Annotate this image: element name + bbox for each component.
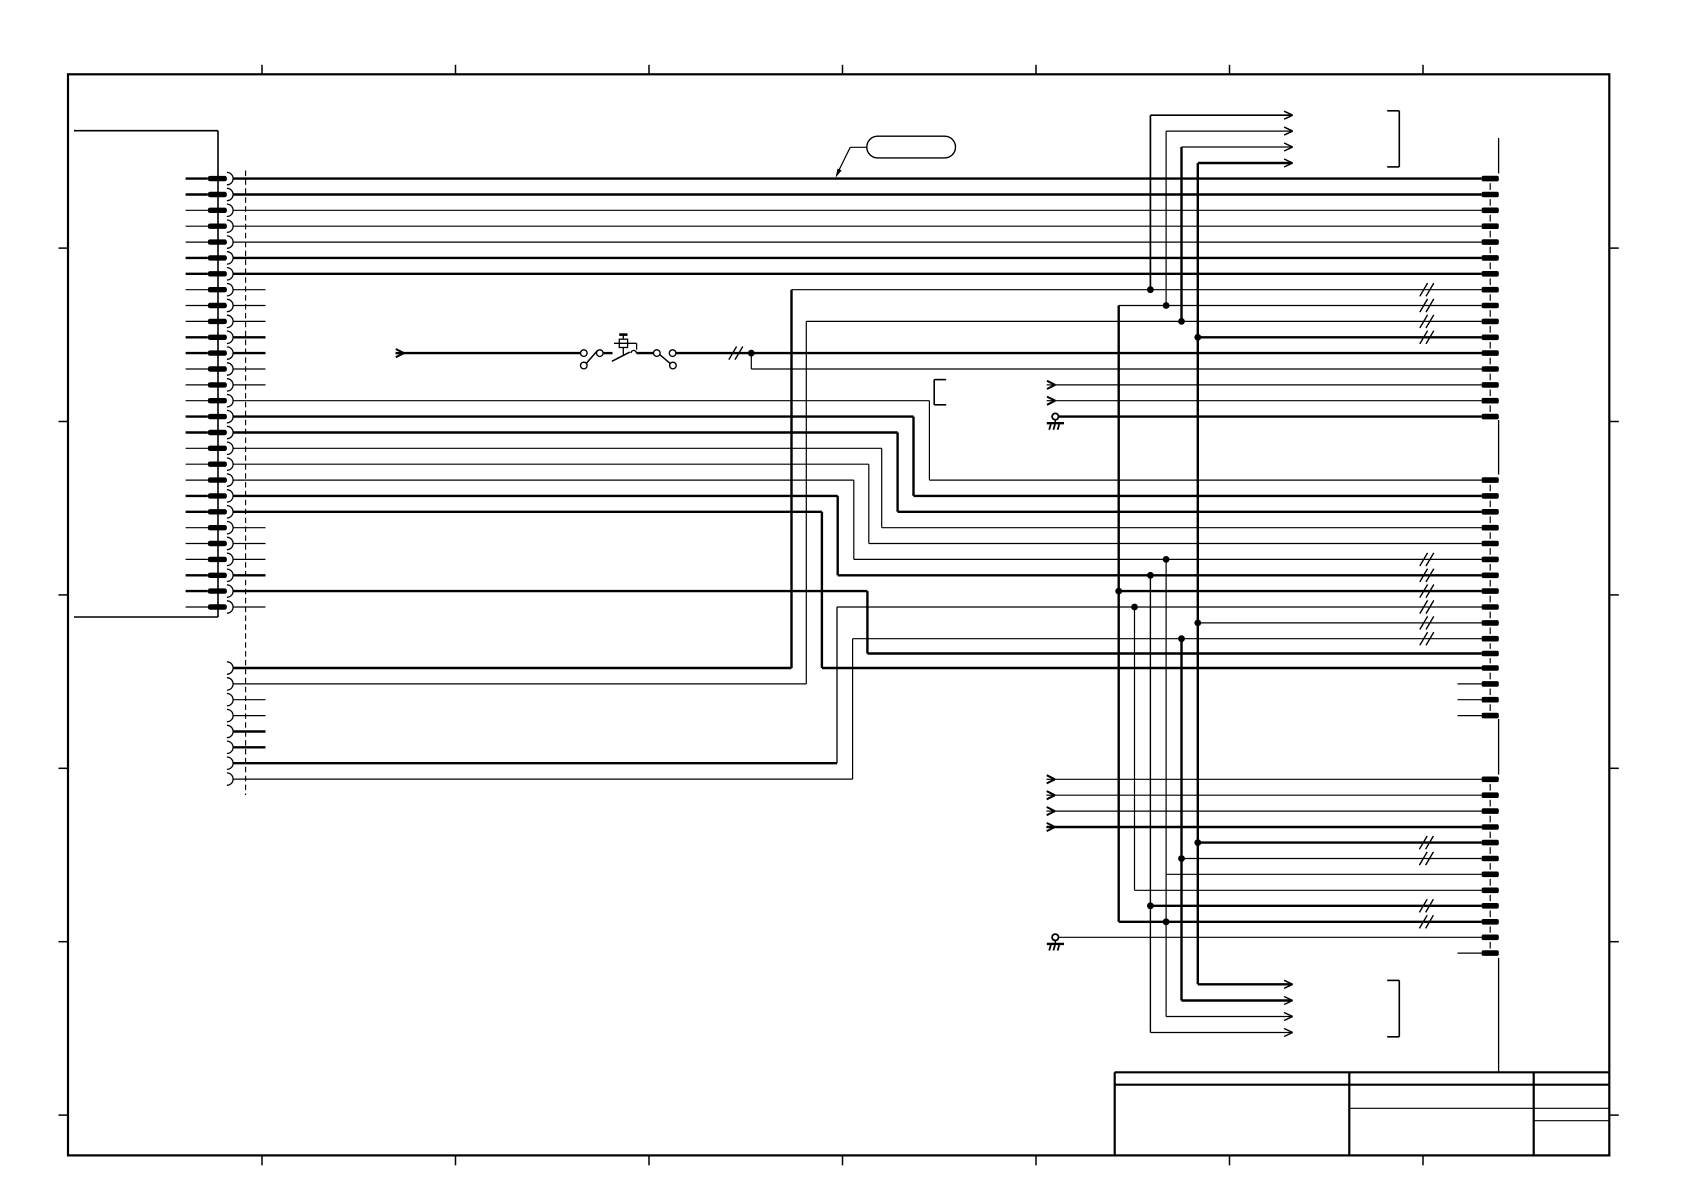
incoming signal arrow g1 xyxy=(1046,791,1055,799)
junction row8/V1166 xyxy=(1163,302,1170,309)
connector J2 pins 1-8 (contacts) xyxy=(227,662,233,786)
wire vertical V791 xyxy=(790,290,792,668)
bus vertical V1150 upper xyxy=(1149,115,1151,290)
wire row20 east xyxy=(914,495,1482,497)
wire row19 east (from row14 jog) xyxy=(929,479,1481,481)
wire J1 pin22 row21 xyxy=(233,511,822,513)
stub wire J1 pin13 xyxy=(233,368,265,370)
outgoing arrow bottom 4 xyxy=(1150,1032,1291,1034)
stub wire J1 pin28 xyxy=(233,606,265,608)
outgoing arrow bottom 3 xyxy=(1166,1016,1291,1018)
wire row6 xyxy=(233,273,1482,275)
wire g0 east xyxy=(1055,778,1482,780)
wire g9 east xyxy=(1119,921,1482,923)
wire row7 east xyxy=(792,289,1482,291)
wire g6 east xyxy=(1166,873,1482,875)
wire row11 east xyxy=(676,352,1482,354)
outgoing arrow top 4 xyxy=(1198,162,1291,164)
wire g1 east xyxy=(1055,794,1482,796)
slash mark row24 xyxy=(1420,553,1434,566)
connector P3 centerline dashes xyxy=(1489,183,1491,948)
junction g4/V1198 xyxy=(1194,839,1201,846)
connector P3 contact blobs xyxy=(1482,176,1499,956)
bus vertical V1181 upper xyxy=(1180,147,1182,321)
wire J1 pin21 row20 xyxy=(233,495,838,497)
incoming signal arrow g0 xyxy=(1046,775,1055,783)
bus vertical V1198 xyxy=(1197,163,1199,984)
switch S1 blade hinge hump xyxy=(631,350,636,353)
outgoing arrow bottom 1 xyxy=(1198,983,1291,985)
wire vertical V852 xyxy=(852,639,854,779)
junction g9/V1166 xyxy=(1163,918,1170,925)
wire row9 east xyxy=(806,320,1481,322)
incoming signal arrow row13 xyxy=(1047,381,1056,389)
wire vertical V806 xyxy=(805,321,807,684)
stub wire J1 pin12 xyxy=(233,352,265,354)
stub wire right row34 xyxy=(1458,715,1482,717)
wire branch row11 to row12 xyxy=(750,353,752,369)
junction row24/V1166 xyxy=(1163,556,1170,563)
wire row22 east xyxy=(882,527,1482,529)
wire row25 east xyxy=(838,574,1482,576)
wire g4 east xyxy=(1198,841,1482,843)
stub wire J2 pin4 xyxy=(233,715,265,717)
wire J1 pin19 row18 xyxy=(233,463,869,465)
stub wire J1 pin8 xyxy=(233,289,265,291)
group bracket bottom right xyxy=(1387,980,1399,1036)
wire J1 pin16 row15 xyxy=(233,415,913,417)
junction row10/V1198 xyxy=(1194,334,1201,341)
slash mark row29 xyxy=(1420,632,1434,645)
stub wire right row32 xyxy=(1458,683,1482,685)
outgoing arrow bottom 2 xyxy=(1182,999,1292,1001)
incoming signal arrow g2 xyxy=(1046,807,1055,815)
wire J2 pin2 row32 west xyxy=(233,683,806,685)
junction row27/V1134 xyxy=(1131,604,1138,611)
wire J1 pin20 row19 xyxy=(233,479,854,481)
wire row12 east xyxy=(751,368,1481,370)
terminal circle g10 xyxy=(1052,934,1058,940)
junction row9/V1181 xyxy=(1178,318,1185,325)
wire row23 east xyxy=(869,543,1482,545)
wire vertical x929 (row14 to row19) xyxy=(928,401,930,480)
incoming signal arrow row11 xyxy=(396,349,405,357)
wire row0 (J1-1 to P3) xyxy=(233,177,1482,179)
callout leader arrow xyxy=(836,147,867,177)
stub wire J1 pin24 xyxy=(233,543,265,545)
stub wire g11 xyxy=(1458,952,1482,954)
connector P3 boundary segments xyxy=(1498,138,1500,1072)
stub wire J1 pin10 xyxy=(233,320,265,322)
junction row28/V1198 xyxy=(1194,620,1201,627)
wire row15 east of circle xyxy=(1059,415,1482,417)
group bracket top right xyxy=(1387,111,1399,167)
wire vertical x854 xyxy=(853,480,855,559)
wire vertical x838 xyxy=(837,496,839,575)
wire vertical x898 xyxy=(896,433,898,512)
incoming signal arrow row14 xyxy=(1047,397,1056,405)
slash mark g8 xyxy=(1419,899,1433,912)
connector J1 boundary dashed line xyxy=(245,171,247,796)
wire row14 from J1 pin15 xyxy=(233,400,929,402)
outgoing arrow top 1 xyxy=(1150,114,1291,116)
slash mark row7 xyxy=(1420,283,1434,296)
wire row31 east xyxy=(822,667,1482,669)
wire row21 east xyxy=(898,511,1482,513)
wire g2 east xyxy=(1055,810,1482,812)
callout balloon xyxy=(867,136,956,158)
wire J2 pin7 row37 west xyxy=(233,762,837,764)
wire row4 xyxy=(233,241,1482,243)
wire g10 east xyxy=(1059,936,1482,938)
stub wire J1 pin9 xyxy=(233,305,265,307)
slash mark row25 xyxy=(1420,569,1434,582)
wire vertical x869 xyxy=(868,464,870,543)
wire row13 east xyxy=(1055,384,1481,386)
title block xyxy=(1115,1072,1610,1155)
wire g7 east xyxy=(1135,889,1482,891)
stub wire right row33 xyxy=(1458,699,1482,701)
junction row7/V1150 xyxy=(1147,286,1154,293)
slash mark row8 xyxy=(1420,299,1434,312)
outgoing arrow top 3 xyxy=(1182,146,1292,148)
wire row3 xyxy=(233,225,1482,227)
connector J1 pins 1-28 (contacts) xyxy=(186,172,234,613)
wire row14 east xyxy=(1055,400,1481,402)
wire row24 east xyxy=(854,558,1482,560)
wire J1 pin18 row17 xyxy=(233,447,882,449)
terminal circle row15 xyxy=(1052,413,1058,419)
stub wire J1 pin23 xyxy=(233,527,265,529)
wire g8 east xyxy=(1150,905,1481,907)
group bracket rows13-14 xyxy=(934,380,946,405)
wire J1 pin17 row16 xyxy=(233,431,898,433)
switch S1 actuator linkage xyxy=(636,343,638,349)
switch S1 actuator button xyxy=(614,335,637,356)
stub wire J1 pin25 xyxy=(233,558,265,560)
slash mark g5 xyxy=(1419,852,1433,865)
wire row2 xyxy=(233,209,1482,211)
ground symbol lower xyxy=(1047,941,1064,951)
bus vertical V1134 xyxy=(1134,607,1136,890)
wire row11 middle xyxy=(636,352,653,354)
wire J1 pin27 row26 xyxy=(233,590,867,592)
slash mark g9 xyxy=(1419,915,1433,928)
slash mark g4 xyxy=(1419,836,1433,849)
junction row26/V1119 xyxy=(1115,588,1122,595)
outgoing arrow top 2 xyxy=(1166,130,1291,132)
junction g5/V1181 xyxy=(1178,855,1185,862)
wire row1 (J1-2 to P3) xyxy=(233,193,1482,195)
wire J2 pin8 row38 west xyxy=(233,778,853,780)
slash mark row10 xyxy=(1420,331,1434,344)
wire row28 east xyxy=(1198,622,1482,624)
stub wire J1 pin14 xyxy=(233,384,265,386)
stub wire J2 pin5 xyxy=(233,730,265,732)
bus vertical V1181 lower xyxy=(1180,639,1182,1001)
incoming signal arrow g3 xyxy=(1046,823,1055,831)
switch S1 left contact terminals xyxy=(581,350,604,369)
bus vertical V1166 upper xyxy=(1165,131,1167,305)
slash mark row26 xyxy=(1420,585,1434,598)
switch S1 center blade xyxy=(612,352,630,361)
switch S1 left blade xyxy=(586,351,597,364)
wire vertical V837 xyxy=(836,607,838,763)
bus vertical V1150 lower xyxy=(1149,575,1151,1032)
ground symbol upper xyxy=(1047,420,1064,430)
wire row11 west of switch xyxy=(404,352,581,354)
wire row30 east xyxy=(867,652,1481,654)
wire row10 east xyxy=(1198,336,1482,338)
wire g5 east xyxy=(1182,858,1482,860)
junction row11 branch xyxy=(748,350,755,357)
stub wire J1 pin26 xyxy=(233,574,265,576)
junction row29/V1181 xyxy=(1178,635,1185,642)
wire vertical x867.4 xyxy=(866,591,868,653)
wire row26 east xyxy=(1119,590,1482,592)
junction row25/V1150 xyxy=(1147,572,1154,579)
wire row5 xyxy=(233,257,1482,259)
wire between left contact and blade xyxy=(603,352,612,354)
slash mark row9 xyxy=(1420,315,1434,328)
wire vertical x914 xyxy=(912,417,914,496)
bus vertical V1119 xyxy=(1117,306,1119,922)
bus vertical V1166 lower xyxy=(1165,559,1167,1016)
wire row29 east xyxy=(853,638,1482,640)
stub wire J2 pin3 xyxy=(233,699,265,701)
wire row8 east xyxy=(1119,305,1482,307)
stub wire J1 pin11 xyxy=(233,336,265,338)
wire g3 east xyxy=(1055,826,1482,828)
connector J1 body outline xyxy=(74,131,218,617)
stub wire J2 pin6 xyxy=(233,746,265,748)
switch S1 right contact terminals xyxy=(654,350,677,369)
switch S1 right blade xyxy=(660,355,670,364)
wire vertical x882 xyxy=(881,448,883,527)
junction g8/V1150 xyxy=(1147,902,1154,909)
wire J2 pin1 row31 west xyxy=(233,667,791,669)
wire vertical x821.9 xyxy=(821,512,823,668)
slash mark row28 xyxy=(1420,616,1434,629)
slash mark row11 xyxy=(729,347,743,360)
wire row27 east xyxy=(837,606,1482,608)
slash mark row27 xyxy=(1420,600,1434,613)
